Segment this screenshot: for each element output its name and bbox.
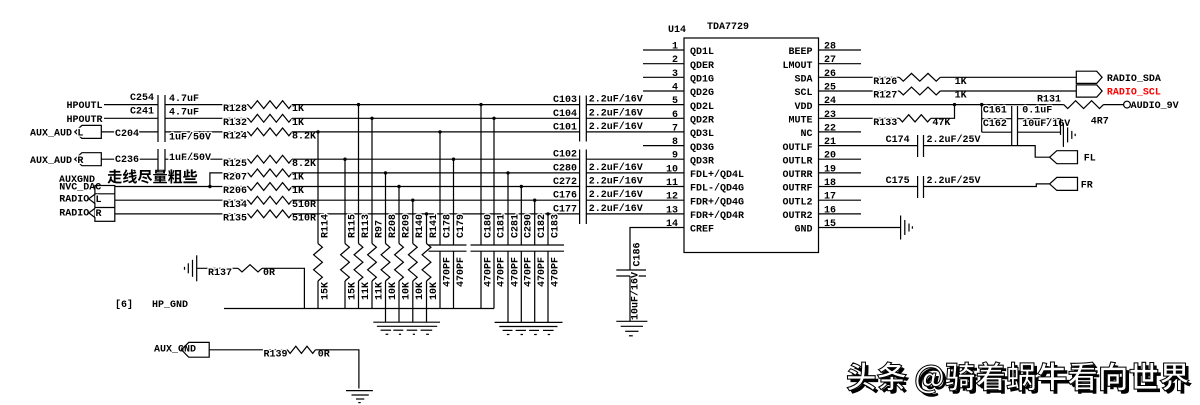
U14 pin 5 number	[672, 96, 678, 107]
svg-text:R: R	[96, 209, 102, 220]
capacitor C281 top lead wire	[507, 173, 509, 245]
node junction row12-C182	[533, 199, 536, 202]
U14 pin 20 number	[824, 151, 836, 162]
port NVC_DAC label	[59, 183, 101, 194]
svg-text:8.2K: 8.2K	[292, 132, 316, 143]
capacitor C175 right plate	[923, 176, 925, 198]
U14 pin 5 name QD2L	[690, 102, 714, 113]
svg-text:C174: C174	[886, 135, 910, 146]
resistor R134 value 510R	[292, 200, 316, 211]
wire VDD down to C161/C162	[981, 105, 983, 133]
U14 part value TDA7729	[707, 22, 749, 33]
capacitor C179 value 470PF	[456, 257, 467, 287]
svg-text:AUDIO_9V: AUDIO_9V	[1131, 101, 1179, 112]
U14 pin 9 name QD3R	[690, 156, 714, 167]
resistor R125 body	[248, 155, 292, 163]
resistor R113 body	[354, 244, 363, 282]
svg-text:L: L	[96, 195, 102, 206]
resistor R206 label	[223, 186, 247, 197]
svg-text:1K: 1K	[292, 186, 304, 197]
wire U14 pin14 to C186	[630, 228, 684, 271]
U14 pin 2 name QDER	[690, 61, 714, 72]
svg-text:C181: C181	[496, 214, 507, 238]
svg-text:26: 26	[824, 69, 836, 80]
wire U14 pin24 VDD	[819, 104, 1064, 106]
svg-text:C180: C180	[483, 214, 494, 238]
port AUX_AUD_R symbol	[75, 153, 102, 167]
svg-text:24: 24	[824, 96, 836, 107]
capacitor C183 label	[550, 214, 561, 238]
wire R137 to bus	[262, 268, 304, 308]
svg-text:R: R	[77, 156, 83, 167]
U14 pin 19 name OUTRR	[782, 170, 812, 181]
capacitor plates C180..C183 bottom	[471, 250, 565, 252]
resistor R128 label	[223, 104, 247, 115]
U14 pin 15 number	[824, 219, 836, 230]
svg-text:RADIO: RADIO	[59, 209, 89, 220]
net label AUDIO_9V	[1131, 101, 1179, 112]
resistor R97 top lead wire	[371, 118, 373, 243]
wire stub U14 pin 8	[643, 145, 684, 147]
svg-text:HP_GND: HP_GND	[152, 300, 188, 311]
wire R139 to ground	[316, 350, 359, 389]
svg-text:12: 12	[666, 192, 678, 203]
resistor R97 value 11K	[374, 282, 385, 300]
U14 pin 18 number	[824, 178, 836, 189]
port FR symbol	[1050, 177, 1078, 190]
svg-text:FL: FL	[1084, 154, 1096, 165]
node junction NVC hook	[208, 185, 211, 188]
capacitor C103 value 2.2uF/16V	[589, 94, 643, 106]
capacitor C183 bottom lead wire	[547, 251, 549, 322]
svg-text:RADIO_SDA: RADIO_SDA	[1107, 74, 1161, 85]
svg-text:AUX_AUD: AUX_AUD	[30, 156, 72, 167]
wire U14 pin15 GND	[819, 227, 901, 229]
svg-text:R207: R207	[223, 173, 247, 184]
wire C102 to U14 pin9	[586, 158, 684, 160]
resistor R139 body	[287, 346, 315, 353]
port RADIO_SDA label	[1107, 74, 1161, 85]
U14 pin 15 name GND	[794, 225, 812, 236]
resistor R113 bottom lead wire	[358, 281, 360, 309]
U14 pin 14 name CREF	[690, 225, 714, 236]
wire C236 to R125	[165, 158, 248, 160]
svg-text:1K: 1K	[955, 91, 967, 102]
capacitor bank plates C254/C241/C204 left plate	[157, 95, 159, 142]
svg-text:C103: C103	[553, 95, 577, 106]
port RADIO_SCL symbol	[1076, 85, 1102, 97]
capacitor C180 bottom lead wire	[480, 251, 482, 308]
U14 pin 28 number	[824, 42, 836, 53]
U14 pin 3 number	[672, 69, 678, 80]
capacitor C176 label	[553, 191, 577, 202]
U14 pin 2 number	[672, 55, 678, 66]
svg-text:OUTL2: OUTL2	[782, 197, 812, 208]
wire R135 to C177	[292, 213, 580, 215]
resistor R208 value 10K	[388, 282, 399, 300]
svg-text:C179: C179	[456, 214, 467, 238]
capacitor C177 value 2.2uF/16V	[589, 203, 643, 215]
node junction row10-R208	[384, 171, 387, 174]
capacitor C181 label	[496, 214, 507, 238]
svg-text:1K: 1K	[292, 104, 304, 115]
svg-text:GND: GND	[794, 225, 812, 236]
capacitor C162 label	[983, 119, 1007, 130]
resistor R137 body	[238, 265, 262, 272]
svg-text:4.7uF: 4.7uF	[169, 94, 199, 105]
svg-text:R114: R114	[320, 214, 331, 238]
svg-text:4.7uF: 4.7uF	[169, 107, 199, 118]
wire C174 to FL	[924, 146, 1050, 158]
ground symbol C186	[616, 321, 647, 336]
U14 pin 8 name QD3G	[690, 143, 714, 154]
resistor R127 body	[899, 87, 940, 95]
svg-text:OUTLR: OUTLR	[782, 156, 812, 167]
capacitor C162 value 10uF/16V	[1022, 118, 1070, 130]
U14 pin 10 name FDL+/QD4L	[690, 169, 744, 181]
op-amp U14 TDA7729 IC body	[684, 38, 819, 253]
resistor R131 label	[1037, 95, 1061, 106]
U14 pin 27 number	[824, 55, 836, 66]
svg-text:C183: C183	[550, 214, 561, 238]
capacitor C272 label	[553, 177, 577, 188]
wire U14 pin18 to C175	[819, 186, 918, 188]
svg-text:TDA7729: TDA7729	[707, 22, 749, 33]
U14 pin 23 name MUTE	[788, 116, 812, 127]
capacitor C182 top lead wire	[534, 200, 536, 245]
wire stub U14 pin 17	[819, 199, 862, 201]
svg-text:QD3L: QD3L	[690, 129, 714, 140]
U14 pin 7 name QD3L	[690, 129, 714, 140]
resistor R114 bottom lead wire	[317, 281, 319, 309]
svg-text:R128: R128	[223, 104, 247, 115]
capacitor C104 value 2.2uF/16V	[589, 107, 643, 119]
U14 pin 12 number	[666, 192, 678, 203]
node junction row11-R209	[397, 185, 400, 188]
capacitor C204 value 1uF/50V	[169, 132, 211, 144]
resistor R115 body	[341, 244, 350, 282]
capacitor C204 label	[115, 129, 139, 140]
capacitor C178 bottom lead wire	[439, 251, 441, 308]
capacitor C182 value 470PF	[537, 257, 548, 287]
wire C280 to U14 pin10	[586, 172, 684, 174]
U14 pin 22 name NC	[800, 129, 812, 140]
svg-text:R135: R135	[223, 214, 247, 225]
svg-text:U14: U14	[668, 25, 686, 36]
capacitor C180 top lead wire	[480, 105, 482, 245]
capacitor C272 value 2.2uF/16V	[589, 176, 643, 188]
svg-text:R206: R206	[223, 186, 247, 197]
resistor R128 body	[248, 101, 292, 109]
port FR label	[1081, 180, 1093, 191]
resistor R209 body	[395, 244, 404, 282]
svg-text:R132: R132	[223, 118, 247, 129]
svg-text:C104: C104	[553, 109, 577, 120]
U14 pin 25 name SCL	[794, 88, 812, 99]
capacitor C174 value 2.2uF/25V	[927, 134, 981, 146]
wire R207 to C280	[292, 172, 580, 174]
resistor R133 label	[873, 118, 897, 129]
capacitor C186 bottom plate	[616, 275, 646, 277]
capacitor C175 label	[886, 176, 910, 187]
wire R131 to AUDIO_9V	[1104, 104, 1124, 106]
svg-text:1uF/50V: 1uF/50V	[169, 132, 211, 144]
resistor R97 bottom lead wire	[371, 281, 373, 309]
net label HPOUTL	[67, 101, 103, 112]
svg-text:10: 10	[666, 164, 678, 175]
svg-text:AUX_AUD: AUX_AUD	[30, 129, 72, 140]
wire C103 to U14 pin5	[586, 104, 684, 106]
svg-text:25: 25	[824, 83, 836, 94]
svg-text:9: 9	[672, 151, 678, 162]
capacitor C181 top lead wire	[493, 118, 495, 245]
U14 pin 24 name VDD	[794, 102, 812, 113]
capacitor C241 label	[130, 107, 154, 118]
U14 pin 13 number	[666, 205, 678, 216]
port RADIO_R symbol point	[89, 208, 102, 220]
U14 pin 6 number	[672, 110, 678, 121]
capacitor C236 right plate	[164, 149, 166, 172]
resistor R115 bottom lead wire	[344, 281, 346, 309]
svg-text:R208: R208	[388, 214, 399, 238]
svg-text:1K: 1K	[292, 173, 304, 184]
ground cluster under capacitor bank	[495, 322, 563, 334]
svg-text:23: 23	[824, 110, 836, 121]
svg-text:OUTRR: OUTRR	[782, 170, 812, 181]
port RADIO_L symbol point	[89, 194, 102, 206]
svg-text:R97: R97	[374, 220, 385, 238]
resistor R209 bottom lead wire	[398, 281, 400, 322]
resistor R141 value 10K	[429, 282, 440, 300]
U14 pin 25 number	[824, 83, 836, 94]
node junction VDD-caps	[980, 103, 983, 106]
capacitor C161/C162 shared left plate	[1011, 106, 1013, 145]
wire R134 to C176	[292, 199, 580, 201]
wire U14 pin21 to C174	[819, 145, 918, 147]
U14 pin 3 name QD1G	[690, 75, 714, 86]
svg-text:0R: 0R	[318, 349, 330, 360]
svg-text:QD1L: QD1L	[690, 47, 714, 58]
node junction VDD-R133	[953, 103, 956, 106]
svg-text:C177: C177	[553, 204, 577, 215]
capacitor C161/C162 shared right plate	[1017, 106, 1019, 145]
wire stub U14 pin 28	[819, 49, 862, 51]
wire R124 to C101	[292, 131, 580, 133]
svg-text:10K: 10K	[401, 282, 412, 300]
wire corner row10 left	[210, 173, 248, 187]
svg-text:2.2uF/25V: 2.2uF/25V	[927, 175, 981, 187]
capacitor C161 value 0.1uF	[1022, 105, 1052, 116]
resistor R125 label	[223, 159, 247, 170]
wire U14 pin23 to R133	[819, 117, 900, 119]
wire C162 to ground	[1060, 119, 1062, 135]
capacitor C236 value 1uF/50V	[169, 152, 211, 164]
capacitor C236 label	[115, 155, 139, 166]
ground cluster under resistor bank	[373, 322, 440, 334]
capacitor C182 bottom lead wire	[534, 251, 536, 322]
svg-text:NC: NC	[800, 129, 812, 140]
node junction row10-C281	[506, 171, 509, 174]
capacitor C290 label	[524, 214, 535, 238]
port FL label	[1084, 154, 1096, 165]
svg-text:BEEP: BEEP	[788, 47, 812, 58]
svg-text:VDD: VDD	[794, 102, 812, 113]
svg-text:470PF: 470PF	[483, 257, 494, 287]
svg-text:17: 17	[824, 192, 836, 203]
svg-text:C290: C290	[524, 214, 535, 238]
resistor R133 body	[899, 115, 931, 122]
svg-text:R127: R127	[873, 91, 897, 102]
U14 pin 7 number	[672, 123, 678, 134]
svg-text:FDR+/QD4G: FDR+/QD4G	[690, 196, 744, 208]
capacitor C175 left plate	[917, 176, 919, 198]
resistor R208 top lead wire	[385, 173, 387, 244]
capacitor C182 label	[537, 214, 548, 238]
svg-text:SDA: SDA	[794, 75, 812, 86]
svg-text:R137: R137	[208, 268, 232, 279]
resistor R208 label	[388, 214, 399, 238]
svg-text:R124: R124	[223, 132, 247, 143]
resistor R140 bottom lead wire	[412, 281, 414, 322]
U14 pin 24 number	[824, 96, 836, 107]
resistor R97 label	[374, 220, 385, 238]
svg-text:11: 11	[666, 178, 678, 189]
capacitor C101 label	[553, 122, 577, 133]
capacitor C180 value 470PF	[483, 257, 494, 287]
port AUX_GND label	[154, 344, 196, 355]
svg-text:C186: C186	[632, 242, 643, 266]
svg-text:470PF: 470PF	[510, 257, 521, 287]
svg-text:8.2K: 8.2K	[292, 159, 316, 170]
wire AUX_AUD_L to C204	[101, 131, 158, 133]
svg-text:R113: R113	[361, 214, 372, 238]
wire C272 to U14 pin11	[586, 186, 684, 188]
svg-text:470PF: 470PF	[442, 257, 453, 287]
resistor R135 body	[248, 210, 292, 218]
svg-text:RADIO: RADIO	[59, 195, 89, 206]
resistor R114 top lead wire	[317, 132, 319, 244]
resistor R206 value 1K	[292, 186, 304, 197]
capacitor C181 value 470PF	[496, 257, 507, 287]
capacitor bank plates C103/C104/C101 right	[585, 96, 587, 142]
resistor R206 body	[248, 183, 292, 191]
svg-text:R125: R125	[223, 159, 247, 170]
ground symbol AUX_GND	[346, 391, 373, 403]
node junction row5-R113	[357, 103, 360, 106]
wire stub U14 pin 22	[819, 131, 862, 133]
svg-text:4: 4	[672, 83, 678, 94]
wire R206 to C272	[292, 186, 580, 188]
capacitor C290 value 470PF	[524, 257, 535, 287]
svg-text:470PF: 470PF	[456, 257, 467, 287]
svg-text:R131: R131	[1037, 95, 1061, 106]
wire C254 to R128	[165, 104, 248, 106]
svg-text:11K: 11K	[361, 282, 372, 300]
resistor R134 body	[248, 196, 292, 204]
svg-text:2.2uF/16V: 2.2uF/16V	[589, 189, 643, 201]
resistor R113 label	[361, 214, 372, 238]
resistor R134 label	[223, 200, 247, 211]
U14 pin 12 name FDR+/QD4G	[690, 196, 744, 208]
port group NVC_DAC/RADIO_L/RADIO_R outline	[95, 186, 115, 222]
net label HPOUTR	[67, 115, 103, 126]
svg-text:QD3R: QD3R	[690, 156, 714, 167]
svg-text:HPOUTR: HPOUTR	[67, 115, 103, 126]
svg-text:6: 6	[672, 110, 678, 121]
resistor R132 body	[248, 114, 292, 122]
U14 pin 1 name QD1L	[690, 47, 714, 58]
capacitor bank plates C254/C241/C204 right plate	[164, 95, 166, 142]
svg-text:QDER: QDER	[690, 61, 714, 72]
resistor R114 value 15K	[320, 282, 331, 300]
node junction row7-R114	[316, 130, 319, 133]
resistor R141 label	[429, 214, 440, 238]
capacitor C101 value 2.2uF/16V	[589, 121, 643, 133]
capacitor C176 value 2.2uF/16V	[589, 189, 643, 201]
svg-text:CREF: CREF	[690, 225, 714, 236]
U14 reference designator	[668, 25, 686, 36]
wire stub U14 pin 27	[819, 63, 862, 65]
port RADIO_SDA symbol	[1076, 71, 1102, 83]
svg-text:FDL+/QD4L: FDL+/QD4L	[690, 169, 744, 181]
svg-text:2.2uF/16V: 2.2uF/16V	[589, 107, 643, 119]
U14 pin 16 number	[824, 205, 836, 216]
capacitor C183 top lead wire	[547, 214, 549, 245]
svg-text:C281: C281	[510, 214, 521, 238]
svg-text:C101: C101	[553, 122, 577, 133]
U14 pin 4 number	[672, 83, 678, 94]
svg-text:C182: C182	[537, 214, 548, 238]
capacitor C254 label	[130, 93, 154, 104]
svg-text:R140: R140	[415, 214, 426, 238]
wire HPOUTL to C254	[104, 104, 158, 106]
resistor R207 value 1K	[292, 173, 304, 184]
ground symbol U14 GND	[901, 216, 913, 240]
svg-text:OUTRF: OUTRF	[782, 184, 812, 195]
capacitor plates C178/C179 bottom	[429, 250, 467, 252]
resistor R132 value 1K	[292, 118, 304, 129]
U14 pin 17 name OUTL2	[782, 197, 812, 208]
resistor R114 body	[314, 244, 323, 282]
svg-text:10K: 10K	[388, 282, 399, 300]
svg-text:1: 1	[672, 42, 678, 53]
node junction row12-R140	[411, 199, 414, 202]
wire C175 to FR	[924, 184, 1050, 187]
svg-text:470PF: 470PF	[550, 257, 561, 287]
svg-text:3: 3	[672, 69, 678, 80]
wire stub U14 pin 20	[819, 158, 862, 160]
wire stub U14 pin 2	[643, 63, 684, 65]
wire R125 to C102	[292, 158, 580, 160]
resistor R141 top lead wire	[426, 214, 428, 244]
resistor R141 bottom lead wire	[426, 281, 428, 322]
svg-text:27: 27	[824, 55, 836, 66]
node junction row6-C181	[492, 117, 495, 120]
svg-text:QD2L: QD2L	[690, 102, 714, 113]
resistor R124 value 8.2K	[292, 132, 316, 143]
svg-text:C236: C236	[115, 155, 139, 166]
resistor R137 label	[208, 268, 232, 279]
wire R132 to C104	[292, 117, 580, 119]
capacitor C178 value 470PF	[442, 257, 453, 287]
svg-text:C178: C178	[442, 214, 453, 238]
svg-text:10uF/16V: 10uF/16V	[630, 272, 642, 320]
wire AUX_AUD_R to C236	[101, 158, 158, 160]
wire C162 right	[1018, 131, 1061, 133]
capacitor C104 label	[553, 109, 577, 120]
port RADIO_SCL label (red)	[1107, 88, 1161, 99]
svg-text:19: 19	[824, 164, 836, 175]
